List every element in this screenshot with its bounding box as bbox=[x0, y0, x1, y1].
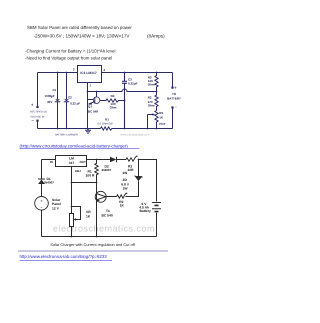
svg-text:ADJ: ADJ bbox=[75, 169, 81, 173]
resistor R2 sch2 bbox=[117, 193, 128, 198]
wire battery to bottom bbox=[156, 213, 158, 237]
wiper arrowhead bbox=[153, 113, 156, 116]
wire top left bbox=[42, 159, 56, 161]
resistor R4 bbox=[100, 99, 125, 102]
svg-text:−: − bbox=[41, 206, 43, 210]
wire D2 to R3 bbox=[117, 159, 127, 161]
svg-text:100 R: 100 R bbox=[86, 173, 95, 177]
svg-text:IN4007: IN4007 bbox=[44, 181, 54, 185]
svg-text:LM: LM bbox=[69, 157, 74, 161]
svg-text:12 V: 12 V bbox=[52, 206, 60, 210]
wire top left to IC bbox=[38, 72, 78, 74]
junction dots schematic1 bbox=[57, 72, 59, 74]
wire VR wiper loop bbox=[72, 207, 81, 220]
transistor T1 bbox=[95, 191, 106, 202]
capacitor C2 bbox=[64, 73, 69, 129]
svg-text:TO: TO bbox=[172, 92, 177, 96]
transistor Q1 bbox=[93, 97, 100, 104]
wire panel to bottom bbox=[41, 210, 43, 236]
svg-text:SBM Solar Panel are rated diff: SBM Solar Panel are rated differently ba… bbox=[27, 25, 132, 30]
wire right vertical lower bbox=[172, 108, 174, 129]
battery bars bbox=[152, 203, 161, 209]
svg-text:BC 540: BC 540 bbox=[102, 214, 113, 218]
wire ADJ with hop bbox=[88, 89, 157, 91]
svg-text:-250W=30.6V ; 150W/140W = 18V;: -250W=30.6V ; 150W/140W = 18V; 130W=17V bbox=[34, 33, 131, 38]
wire bottom rail bbox=[38, 128, 173, 130]
Q1 emitter arrow bbox=[89, 103, 93, 105]
capacitor C3 bbox=[122, 73, 127, 129]
capacitor C2 plate bbox=[64, 99, 69, 101]
wire top right bbox=[139, 160, 157, 202]
wire left vertical upper bbox=[37, 73, 39, 108]
svg-text:1K: 1K bbox=[86, 214, 91, 218]
svg-text:OUT: OUT bbox=[79, 160, 86, 164]
terminal dots bbox=[36, 106, 38, 108]
svg-text:C2: C2 bbox=[68, 95, 72, 99]
wire right vertical upper bbox=[172, 73, 174, 88]
svg-text:IC1 LM317: IC1 LM317 bbox=[80, 71, 96, 75]
svg-text:BATTERY: BATTERY bbox=[167, 97, 181, 101]
svg-text:R1: R1 bbox=[105, 117, 109, 121]
wire IC to D2 bbox=[87, 159, 111, 161]
svg-text:T1: T1 bbox=[106, 209, 110, 213]
svg-text:BC 548: BC 548 bbox=[88, 109, 99, 113]
svg-text:Ohm: Ohm bbox=[110, 106, 117, 110]
svg-text:Solar Charger with Current reg: Solar Charger with Current regulation an… bbox=[50, 242, 135, 247]
capacitor C1 plate bbox=[55, 99, 60, 101]
junction dots sch2 bbox=[96, 159, 98, 161]
potentiometer VR bbox=[70, 214, 74, 227]
resistor R2 bbox=[155, 92, 158, 111]
svg-text:0.5 Ohm 5W: 0.5 Ohm 5W bbox=[97, 122, 113, 125]
ground bbox=[85, 129, 91, 134]
wire top IC to right corner bbox=[102, 72, 173, 74]
resistor R3 sch2 bbox=[126, 156, 138, 161]
svg-text:(http://www.circuitstoday.com/: (http://www.circuitstoday.com/lead-acid-… bbox=[20, 143, 129, 148]
T1 emitter arrow bbox=[97, 199, 100, 202]
wire D1 to panel bbox=[41, 184, 43, 197]
op-amp U1 box LM317 bbox=[78, 66, 102, 83]
resistor R3 bbox=[155, 73, 158, 92]
svg-text:electroschematics.com: electroschematics.com bbox=[53, 224, 155, 234]
potentiometer R5 bbox=[155, 111, 158, 129]
capacitor C1 bbox=[55, 73, 60, 129]
VR wiper arrowhead bbox=[73, 218, 76, 221]
svg-text:40V: 40V bbox=[47, 100, 52, 104]
wire R5 wiper bbox=[148, 115, 154, 129]
resistor R1 sch2 bbox=[95, 160, 98, 183]
wire left upper sch2 bbox=[38, 160, 45, 180]
svg-text:1K: 1K bbox=[120, 204, 125, 208]
svg-text:(8Amps): (8Amps) bbox=[147, 33, 165, 38]
svg-text:Panel: Panel bbox=[52, 202, 61, 206]
IC2 box LM317 bbox=[56, 156, 87, 167]
svg-text:http://www.electronics-lab.com: http://www.electronics-lab.com/blog/?p=6… bbox=[20, 254, 108, 259]
svg-text:POT: POT bbox=[159, 122, 165, 126]
svg-text:0.22µF: 0.22µF bbox=[128, 82, 138, 86]
diode D1 triangle bbox=[38, 180, 45, 185]
wire ADJ horizontal bbox=[72, 182, 97, 184]
svg-text:+: + bbox=[51, 95, 53, 99]
svg-text:R4: R4 bbox=[111, 94, 115, 98]
svg-text:C1: C1 bbox=[53, 88, 57, 92]
svg-text:R2: R2 bbox=[148, 96, 152, 100]
diode D2 bbox=[116, 157, 118, 162]
wire VR to bottom bbox=[71, 227, 73, 237]
svg-text:RECTIFIED DC: RECTIFIED DC bbox=[30, 111, 47, 114]
diode D2 triangle bbox=[110, 157, 117, 162]
svg-text:0.22 µF: 0.22 µF bbox=[70, 102, 80, 106]
wire R2 to zener bbox=[126, 181, 139, 196]
svg-text:www.circuitstoday.com: www.circuitstoday.com bbox=[121, 132, 151, 136]
svg-text:10R: 10R bbox=[128, 168, 135, 172]
svg-text:-Need to find Voltage output f: -Need to find Voltage output from solar … bbox=[25, 56, 112, 61]
wire T1 base to R2 bbox=[106, 196, 117, 198]
divider rule bbox=[18, 250, 168, 252]
svg-text:Ohm: Ohm bbox=[148, 82, 155, 86]
zener ZD triangle bbox=[135, 177, 141, 181]
svg-text:Battery: Battery bbox=[140, 209, 152, 213]
svg-text:R5: R5 bbox=[159, 111, 163, 115]
svg-text:317: 317 bbox=[69, 161, 75, 165]
svg-text:+: + bbox=[41, 199, 43, 203]
solar panel G1 bbox=[35, 197, 49, 211]
svg-text:IN: IN bbox=[50, 160, 53, 164]
svg-text:1W: 1W bbox=[122, 171, 128, 175]
wire left vertical lower bbox=[37, 121, 39, 129]
wire pin1 down to base bbox=[88, 83, 94, 129]
svg-text:Q1: Q1 bbox=[88, 104, 92, 108]
zener ZD bbox=[135, 160, 143, 178]
wire ADJ vertical bbox=[71, 167, 73, 214]
svg-text:-Charging Current for Battery: -Charging Current for Battery = (1/10)*A… bbox=[25, 48, 115, 53]
wire bottom rail sch2 bbox=[42, 236, 157, 238]
svg-text:IN4007: IN4007 bbox=[102, 168, 112, 172]
svg-text:BATTERY CHARGER: BATTERY CHARGER bbox=[55, 133, 78, 136]
svg-text:Ohm: Ohm bbox=[148, 103, 155, 107]
resistor R1 bbox=[101, 127, 113, 130]
